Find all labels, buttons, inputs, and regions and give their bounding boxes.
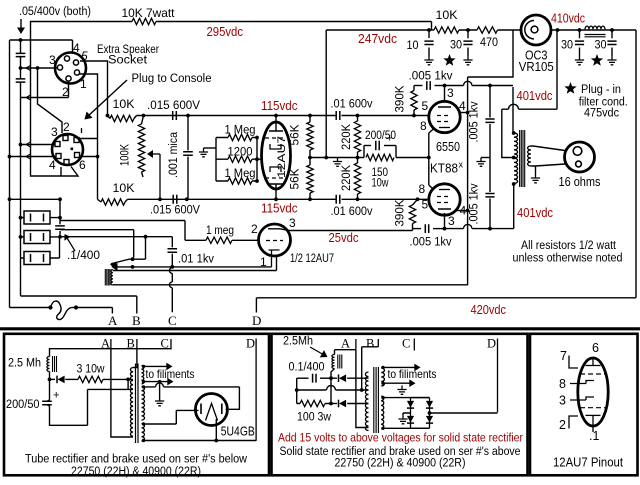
box2 transformer sec bottom coil — [381, 396, 384, 429]
box1 tick A — [110, 339, 112, 349]
svg-text:.01 600v: .01 600v — [331, 204, 374, 218]
node dot T1 primary top — [512, 131, 516, 135]
wire T1 secondary top lead — [531, 146, 565, 151]
resistor 1 Meg lower — [216, 178, 257, 184]
ground snubber — [476, 158, 485, 167]
box3 label 6 — [592, 341, 599, 355]
relay box 2 — [24, 231, 50, 244]
box3 tube envelope — [578, 358, 608, 426]
node dot .01 1kv bottom — [170, 265, 174, 269]
inductor filter choke — [585, 26, 606, 37]
wire V2 grid — [342, 115, 431, 117]
switch arrow lower — [112, 263, 118, 271]
svg-text:30: 30 — [561, 38, 573, 52]
svg-text:B: B — [366, 337, 374, 351]
label 10w — [372, 176, 389, 190]
svg-text:3: 3 — [448, 214, 455, 228]
node dot grid2 — [255, 157, 259, 161]
svg-text:3: 3 — [49, 53, 56, 67]
ground T1 secondary — [531, 166, 540, 183]
label 6550 — [436, 140, 460, 154]
node dot contact a — [131, 257, 135, 261]
wire top coupling line — [137, 115, 337, 117]
tube V1 top grid dashes — [265, 137, 283, 139]
relay box 3 leads — [21, 257, 60, 259]
label 115vdc bottom — [261, 202, 298, 216]
label .015 600V top — [147, 98, 201, 112]
capacitor .005 1kv top — [414, 81, 445, 90]
svg-text:22750 (22H) & 40900 (22R): 22750 (22H) & 40900 (22R) — [71, 464, 201, 478]
box1 5U4 filament — [206, 404, 218, 421]
box2 node cap line — [329, 376, 333, 380]
label all resistors note1 — [521, 238, 617, 252]
svg-text:C: C — [161, 337, 169, 351]
label VR105 — [519, 60, 554, 74]
capacitor 10 — [424, 30, 433, 56]
box1 label 3 10w — [77, 362, 105, 376]
box2 pointer — [310, 347, 328, 357]
svg-text:115vdc: 115vdc — [261, 99, 298, 113]
transformer T2 core — [105, 269, 110, 286]
wire 10K bottom leads — [98, 199, 128, 202]
label 56K upper — [288, 125, 302, 146]
node dot cap .1 top — [58, 197, 62, 201]
wire socket J1 pin3 left — [21, 65, 58, 71]
wire pot bottom hook — [142, 172, 144, 177]
tube V4 cathode bar — [269, 250, 280, 267]
label socket J1 pin 4 — [73, 41, 80, 55]
svg-text:C: C — [402, 337, 410, 351]
wire V2 screen stub — [460, 112, 468, 114]
label tube V1 12AU7 — [276, 136, 288, 178]
wire socket J1 pin2 down — [68, 81, 70, 98]
resistor 1200 — [216, 156, 257, 162]
box2 resistor 100 3w — [297, 400, 331, 406]
relay box 2 leads — [19, 235, 62, 239]
label socket J1 pin 2 — [62, 85, 69, 99]
svg-text:6: 6 — [592, 341, 599, 355]
wire grid bracket ground arm — [204, 147, 217, 149]
svg-text:390K: 390K — [393, 86, 407, 113]
pot wiper arrow — [147, 150, 160, 199]
wire top rail to right — [156, 21, 432, 23]
tube V1 bottom grid dashes — [265, 177, 283, 179]
box1 secondary lead 5v bottom — [142, 439, 256, 442]
box1 tick D — [255, 339, 257, 441]
box3 plate bar top — [586, 365, 601, 367]
node dot 220K top — [356, 114, 360, 118]
box2 sec lead fil1 — [381, 364, 420, 372]
node dot V1 plate bottom — [274, 197, 278, 201]
wire switch feed — [60, 230, 134, 258]
svg-text:56K: 56K — [288, 125, 302, 146]
label 220K upper — [339, 124, 353, 150]
box1 transformer secondary 5v winding — [142, 424, 145, 442]
box3 label .1 — [589, 429, 599, 443]
node dot J2c — [96, 155, 100, 159]
label OC3 — [525, 49, 548, 63]
label 390K lower — [393, 200, 407, 227]
label socket J1 pin 1 — [80, 77, 87, 91]
node dot wiper bottom — [158, 197, 162, 201]
wire socket J2 pin6 right — [80, 156, 98, 158]
capacitor 200/50 — [364, 141, 396, 151]
tube V2 grid dashes — [437, 116, 451, 122]
box2 diode 2 — [331, 400, 369, 408]
box3 pin2 lead — [569, 416, 578, 429]
box2 bridge ground — [398, 413, 410, 424]
box2 choke coil — [332, 355, 335, 369]
box1 tube 5U4GB envelope — [195, 394, 227, 426]
box1 node after res — [126, 378, 130, 382]
label 1/2 12AU7 — [290, 251, 334, 265]
box1 diode — [50, 376, 77, 384]
svg-text:C: C — [168, 313, 177, 328]
wire squiggle line — [10, 307, 51, 309]
wire pot top lead — [142, 116, 144, 125]
label Extra Speaker — [97, 42, 159, 56]
box2 tick B — [377, 339, 379, 347]
tube V2 cathode bar — [439, 127, 450, 129]
wire splitter plate to 390K — [290, 229, 413, 231]
box1 tick B — [136, 339, 138, 349]
tube OC3 envelope — [521, 15, 551, 45]
wire snubber vertical — [489, 86, 491, 229]
label Plug to Console — [132, 71, 212, 85]
svg-text:.005 1kv: .005 1kv — [467, 184, 481, 225]
svg-text:220K: 220K — [339, 124, 353, 150]
label C main — [168, 313, 177, 328]
node dot grid3 — [255, 179, 259, 183]
label socket J2 pin 6 — [79, 158, 86, 172]
svg-text:10K 7watt: 10K 7watt — [122, 6, 176, 20]
node dot V3 plate — [443, 227, 447, 231]
wire T2 bottom lead — [113, 284, 468, 286]
box1 transformer primary coil — [130, 368, 133, 437]
tube V2 plate bar — [438, 86, 451, 108]
label 420vdc — [471, 303, 507, 317]
svg-text:10w: 10w — [372, 176, 389, 190]
ground cap30c — [607, 56, 616, 65]
wire 420vdc line — [256, 298, 636, 313]
svg-text:12AU7: 12AU7 — [276, 136, 288, 178]
svg-text:2: 2 — [559, 418, 566, 432]
svg-text:.001 mica: .001 mica — [166, 132, 180, 178]
label cap 30c — [595, 38, 607, 52]
label 16 ohms — [559, 175, 601, 189]
svg-text:1200: 1200 — [228, 145, 253, 159]
tube V3 6550 envelope — [429, 184, 460, 215]
box2 left vertical — [296, 378, 298, 403]
box3 label 7 — [560, 349, 567, 363]
tube V1 top plate — [269, 116, 283, 132]
label 150 — [372, 165, 389, 179]
node dot plate top mid — [488, 84, 492, 88]
box1 wire A down — [111, 349, 133, 437]
svg-text:.015 600V: .015 600V — [150, 203, 201, 217]
resistor 10K 7watt — [132, 18, 156, 24]
svg-text:410vdc: 410vdc — [551, 12, 585, 26]
box1 choke bottom — [49, 372, 51, 380]
box1 label A — [101, 337, 110, 351]
wire C drop — [169, 267, 172, 312]
node dot 220K junction — [356, 156, 360, 160]
wire screen feed — [468, 30, 513, 285]
label filter cond. — [579, 95, 628, 109]
label 10K rail — [436, 8, 458, 22]
resistor 220K upper — [354, 116, 360, 158]
box3 plate bar bottom — [586, 414, 601, 416]
wire left bus top — [10, 39, 73, 41]
node dot squiggle right — [74, 305, 78, 309]
label 200/50 plus — [387, 133, 393, 145]
resistor 10K bottom — [101, 199, 125, 205]
node dot 56K mid — [308, 156, 312, 160]
label V4 pin 1 — [260, 255, 267, 269]
box1 caption line1 — [25, 452, 247, 466]
box3 grid dash bottom — [580, 407, 607, 409]
tube OC3 arc — [525, 21, 534, 39]
node dot V1 plate top — [274, 114, 278, 118]
svg-text:401vdc: 401vdc — [517, 206, 553, 220]
svg-text:115vdc: 115vdc — [261, 202, 298, 216]
wire socket J1 pin5 right — [80, 61, 108, 116]
wire rail after OC3 — [551, 29, 636, 31]
box3 pin3 lead — [570, 397, 594, 400]
box2 B line — [297, 386, 369, 391]
box2 tick D — [497, 339, 499, 413]
box3 pin6 lead — [592, 358, 594, 366]
svg-text:295vdc: 295vdc — [207, 25, 244, 39]
box1 choke core — [53, 356, 57, 372]
svg-text:1 Meg: 1 Meg — [225, 123, 256, 137]
label 247vdc — [358, 32, 397, 46]
node dot T1 center tap — [512, 156, 516, 160]
capacitor 30b — [575, 30, 584, 56]
svg-text:3: 3 — [559, 394, 566, 408]
box1 label plus — [53, 390, 59, 402]
box3 pin7 lead — [569, 356, 578, 369]
wire cathode net bracket left — [363, 146, 365, 158]
wire snubber ground arm — [481, 157, 490, 159]
box1 tick C — [170, 339, 172, 349]
ground mid node — [333, 158, 342, 167]
box1 transformer secondary hv winding — [142, 387, 145, 421]
svg-text:Add 15 volts to above voltages: Add 15 volts to above voltages for solid… — [278, 431, 523, 445]
node dot pot top — [142, 114, 146, 118]
wire V3 screen stub — [457, 210, 468, 212]
node dot mid feed — [324, 156, 328, 160]
wire center tap feed — [502, 30, 557, 158]
node dot J2a — [19, 143, 23, 147]
node dot squiggle left — [48, 305, 52, 309]
svg-text:5: 5 — [422, 99, 429, 113]
box2 sec lead hv1 — [381, 396, 429, 399]
node dot A2 — [19, 66, 23, 70]
svg-text:6: 6 — [79, 158, 86, 172]
box2 wire A to choke — [335, 350, 369, 428]
svg-text:1: 1 — [80, 77, 87, 91]
tube V1 bottom cathode — [270, 167, 281, 172]
tube V1 bottom plate — [269, 184, 283, 199]
label cap 30a — [450, 38, 462, 52]
label .001 mica — [166, 132, 180, 178]
svg-text:Socket: Socket — [108, 53, 148, 67]
svg-text:6550: 6550 — [436, 140, 460, 154]
label 100K — [118, 144, 132, 166]
box2 caption line2 — [335, 456, 466, 470]
box2 bridge right stack — [426, 398, 433, 429]
box1 border — [4, 334, 269, 476]
wire V3 plate line — [445, 184, 514, 229]
box2 sec lead hv2 — [381, 427, 429, 430]
transformer T1 primary coil — [514, 133, 518, 183]
svg-text:220K: 220K — [339, 165, 353, 191]
box3 label 8 — [559, 377, 566, 391]
svg-text:.01 600v: .01 600v — [331, 97, 374, 111]
wire cathode node to tubes — [396, 157, 429, 159]
box1 transformer secondary fil winding — [142, 366, 144, 385]
wire left rail x=20.5 down — [20, 98, 22, 297]
wire grid tie vertical — [257, 138, 262, 182]
box2 choke core — [338, 355, 342, 369]
svg-text:10: 10 — [407, 38, 419, 52]
svg-text:56K: 56K — [288, 169, 302, 190]
transformer T2 coil — [111, 270, 113, 286]
capacitor 30a — [463, 30, 472, 56]
ground cap30b — [575, 56, 584, 65]
node dot grid1 — [255, 136, 259, 140]
wire rail segment3 — [498, 29, 522, 31]
label A main — [108, 313, 118, 328]
node dot after .015 bottom — [185, 197, 189, 201]
label 56K lower — [288, 169, 302, 190]
wire B line — [21, 296, 137, 314]
svg-text:3: 3 — [289, 216, 296, 230]
box2 border — [272, 334, 528, 476]
ground cap10 — [424, 56, 433, 65]
box2 node res line — [329, 402, 333, 406]
tube V3 plate bar — [438, 209, 451, 229]
relay box 1 leads — [19, 216, 62, 220]
box2 caption line1 — [280, 444, 521, 458]
box2 bridge output — [428, 411, 498, 415]
power cord squiggle — [51, 301, 77, 320]
label 470 — [480, 35, 498, 49]
box2 label to filiments — [388, 367, 437, 381]
transformer T1 core — [520, 130, 525, 187]
box1 secondary lead hv2 — [142, 410, 199, 425]
label V4 pin 3 — [289, 216, 296, 230]
wire T2 top lead — [113, 256, 277, 270]
svg-text:22750 (22H) & 40900 (22R): 22750 (22H) & 40900 (22R) — [335, 456, 466, 470]
star filter — [591, 54, 603, 66]
capacitor .015 600V top — [173, 111, 177, 120]
box1 wire B down — [133, 349, 137, 367]
wire socket J1 pin1 right — [80, 74, 98, 199]
svg-text:4: 4 — [49, 158, 56, 172]
box3 label 3 — [559, 394, 566, 408]
wire socket J2 pin3 left — [21, 142, 56, 148]
svg-text:8: 8 — [419, 182, 426, 196]
node dot plate bottom mid — [488, 227, 492, 231]
wire top rail from corner to 10K 7watt — [31, 22, 133, 41]
label .01 600v bottom — [331, 204, 374, 218]
svg-text:3 10w: 3 10w — [77, 362, 105, 376]
box1 cap 200/50 — [42, 379, 87, 425]
label 1200 — [228, 145, 253, 159]
wire KT88 cathode bus — [428, 133, 430, 185]
label 25vdc — [329, 231, 359, 245]
box1 node diode — [48, 378, 52, 382]
svg-text:.01 1kv: .01 1kv — [178, 252, 215, 266]
box3 caption — [553, 456, 623, 470]
node dot cap10 — [427, 28, 431, 32]
box2 diode 1 — [331, 374, 369, 382]
svg-text:.1/400: .1/400 — [67, 248, 100, 262]
svg-text:Plug to Console: Plug to Console — [132, 71, 212, 85]
label 10K bottom — [113, 181, 135, 195]
label .005 1kv bottom — [410, 235, 453, 249]
label V3 pin 4 — [460, 204, 467, 218]
box3 grid dash top — [580, 373, 607, 375]
switch diagonal — [111, 259, 146, 264]
speaker jack outline — [565, 142, 595, 172]
label .05/400v (both) — [19, 4, 91, 18]
svg-text:.1: .1 — [589, 429, 599, 443]
relay box 3 — [24, 252, 50, 265]
label socket J2 pin 4 — [49, 158, 56, 172]
svg-text:16 ohms: 16 ohms — [559, 175, 601, 189]
wire bottom coupling line — [128, 198, 337, 200]
hop center tap feed — [509, 104, 519, 109]
svg-text:8: 8 — [559, 377, 566, 391]
box2 label C — [402, 337, 410, 351]
node dot choke right — [610, 28, 614, 32]
wire squiggle to A — [76, 308, 112, 314]
label socket J2 pin 1 — [81, 128, 83, 133]
label 295vdc — [207, 25, 244, 39]
label .005 1kv snubber bottom — [467, 184, 481, 225]
svg-text:247vdc: 247vdc — [358, 32, 397, 46]
node dot cathode junction — [427, 156, 431, 160]
bottom section separator — [0, 327, 640, 330]
ground grid network — [199, 148, 208, 157]
resistor 56K lower — [307, 158, 313, 200]
wire T1 center tap stub — [508, 157, 514, 159]
label V4 pin 2 — [251, 222, 258, 236]
label B main — [132, 313, 141, 328]
wire T1 secondary bottom lead — [531, 164, 565, 166]
label V3 pin 8 — [419, 182, 426, 196]
box2 transformer core — [374, 367, 379, 433]
node dot 10K top left — [106, 114, 110, 118]
svg-text:10K: 10K — [113, 181, 135, 195]
svg-text:.005 1kv: .005 1kv — [410, 235, 453, 249]
resistor 390K lower — [409, 199, 417, 229]
label socket J1 pin 5 — [81, 49, 88, 63]
box2 label 2.5Mh — [283, 334, 313, 348]
label 200/50 — [365, 128, 396, 142]
svg-text:.015 600V: .015 600V — [147, 98, 201, 112]
resistor 150 10w — [366, 154, 394, 160]
wire y=97.5 — [21, 95, 69, 101]
capacitor .005 1kv plate bottom — [413, 224, 445, 233]
box1 label to filiments — [146, 367, 195, 381]
box1 label C — [161, 337, 169, 351]
wire socket J2 pin1 right — [80, 138, 98, 140]
speaker jack pin large — [573, 147, 582, 156]
